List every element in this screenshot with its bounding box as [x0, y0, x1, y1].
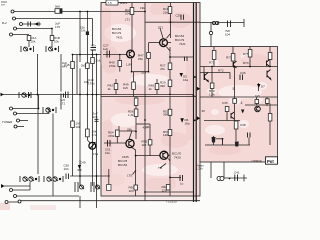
svg-text:10k: 10k [84, 80, 89, 84]
svg-text:C35: C35 [222, 101, 228, 105]
svg-text:47k: 47k [160, 67, 165, 71]
svg-text:398: 398 [163, 113, 168, 117]
svg-text:120: 120 [162, 189, 167, 193]
svg-text:104: 104 [225, 33, 230, 37]
svg-text:7421: 7421 [179, 42, 186, 46]
svg-text:104: 104 [129, 189, 134, 193]
svg-text:R73: R73 [226, 56, 232, 60]
svg-text:C36: C36 [240, 71, 246, 75]
svg-text:21k: 21k [96, 59, 101, 63]
svg-text:4: 4 [241, 101, 243, 105]
svg-text:1,2k: 1,2k [209, 93, 215, 97]
svg-text:104: 104 [125, 12, 130, 16]
svg-text:Pot: Pot [267, 159, 274, 164]
svg-text:C49: C49 [80, 161, 86, 165]
svg-text:10k: 10k [76, 125, 81, 129]
svg-text:1k: 1k [108, 87, 112, 91]
svg-text:C45: C45 [64, 63, 70, 67]
svg-text:7420: 7420 [174, 156, 181, 160]
svg-text:120: 120 [163, 133, 168, 137]
svg-text:25k: 25k [127, 128, 132, 132]
svg-text:1k5: 1k5 [255, 94, 260, 98]
svg-text:LT1: LT1 [125, 18, 130, 22]
svg-text:131: 131 [145, 125, 150, 129]
svg-text:BC179: BC179 [112, 31, 122, 35]
svg-text:BC154: BC154 [118, 163, 128, 167]
svg-text:1u: 1u [180, 182, 184, 186]
svg-text:TC1620: TC1620 [166, 200, 177, 204]
svg-text:TUNER: TUNER [2, 120, 13, 124]
svg-text:15k: 15k [138, 57, 143, 61]
svg-text:171: 171 [60, 102, 65, 106]
svg-text:2k5: 2k5 [81, 64, 86, 68]
svg-text:104: 104 [64, 167, 69, 171]
svg-text:ODR34: ODR34 [252, 159, 262, 163]
svg-text:5: 5 [233, 87, 235, 91]
svg-text:1k: 1k [149, 87, 153, 91]
svg-text:1%: 1% [81, 28, 86, 32]
svg-text:390: 390 [160, 84, 165, 88]
svg-text:1k5: 1k5 [123, 86, 128, 90]
svg-text:32V: 32V [141, 71, 146, 75]
svg-text:1,2k: 1,2k [128, 113, 134, 117]
svg-text:19k: 19k [140, 6, 145, 10]
svg-text:R74: R74 [243, 61, 249, 65]
svg-text:1,2Vs: 1,2Vs [196, 167, 203, 171]
svg-text:R72: R72 [218, 69, 224, 73]
svg-text:10k: 10k [54, 40, 59, 44]
svg-text:D7: D7 [261, 85, 265, 89]
svg-text:C41: C41 [234, 171, 240, 175]
svg-text:16a: 16a [183, 78, 188, 82]
svg-text:5k8: 5k8 [55, 5, 60, 9]
svg-text:C29: C29 [176, 14, 182, 18]
svg-text:170n: 170n [88, 82, 95, 86]
svg-text:16a: 16a [185, 122, 190, 126]
svg-text:C38: C38 [240, 123, 246, 127]
svg-text:175: 175 [55, 25, 60, 29]
svg-text:7.5: 7.5 [108, 1, 113, 5]
svg-text:1,8V: 1,8V [126, 63, 132, 67]
svg-text:21k: 21k [163, 11, 168, 15]
svg-text:R75: R75 [243, 52, 249, 56]
svg-text:1uF: 1uF [103, 47, 108, 51]
svg-text:47n: 47n [91, 44, 96, 48]
svg-text:10k: 10k [31, 40, 36, 44]
svg-text:470k: 470k [108, 134, 115, 138]
svg-text:B501: B501 [120, 1, 127, 5]
svg-text:270k: 270k [109, 64, 116, 68]
svg-text:571: 571 [158, 26, 163, 30]
svg-text:7421: 7421 [116, 36, 123, 40]
svg-text:B-2: B-2 [2, 21, 7, 25]
svg-text:1k5: 1k5 [142, 143, 147, 147]
svg-text:10u: 10u [105, 151, 110, 155]
svg-text:17a: 17a [93, 152, 98, 156]
svg-text:30: 30 [202, 109, 206, 113]
svg-text:125: 125 [93, 115, 98, 119]
svg-text:LTS: LTS [127, 174, 132, 178]
svg-text:17a: 17a [92, 133, 97, 137]
